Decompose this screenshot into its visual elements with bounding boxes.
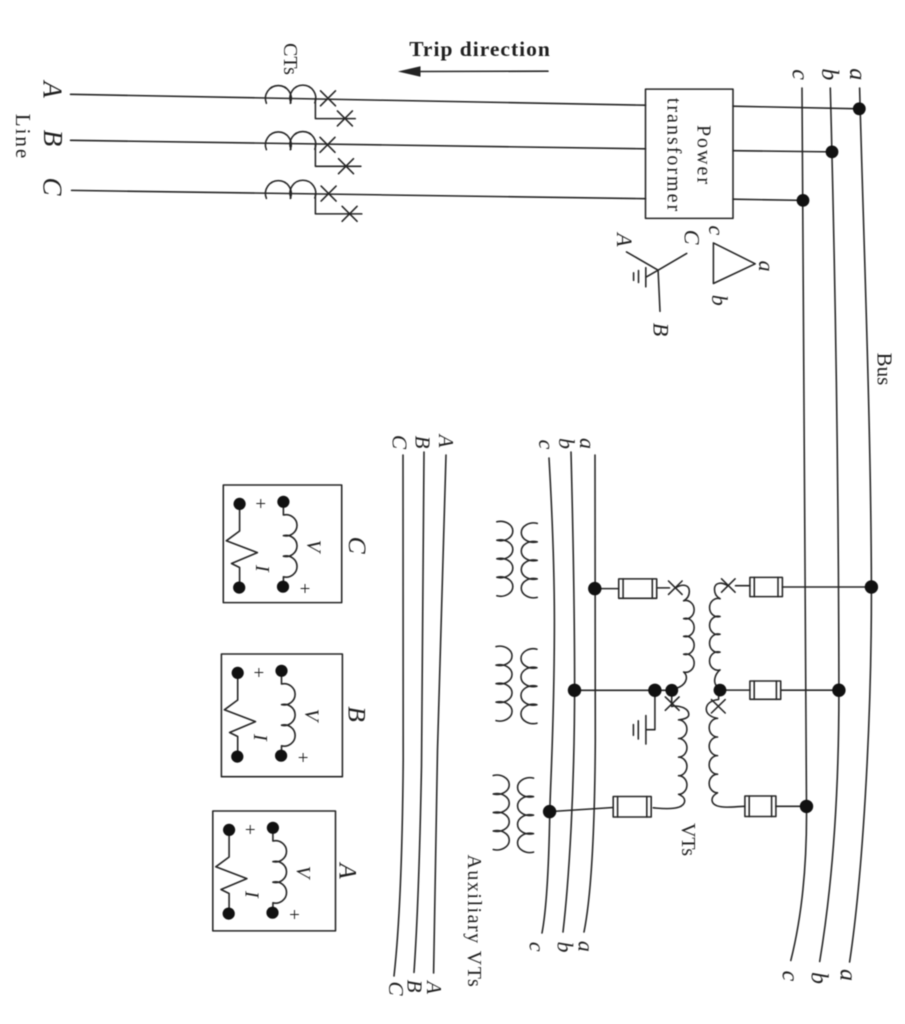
svg-text:b: b bbox=[707, 295, 732, 306]
svg-text:CTs: CTs bbox=[279, 43, 301, 75]
svg-text:B: B bbox=[649, 323, 674, 336]
svg-text:+: + bbox=[300, 579, 311, 600]
svg-text:Trip direction: Trip direction bbox=[409, 37, 551, 61]
svg-text:C: C bbox=[387, 435, 411, 450]
svg-text:+: + bbox=[255, 494, 266, 515]
svg-text:B: B bbox=[343, 706, 372, 722]
svg-text:I: I bbox=[251, 564, 273, 573]
svg-text:+: + bbox=[289, 905, 300, 926]
svg-text:V: V bbox=[292, 866, 314, 881]
svg-text:V: V bbox=[300, 709, 322, 724]
svg-text:+: + bbox=[298, 748, 309, 769]
svg-text:+: + bbox=[245, 820, 256, 841]
svg-text:I: I bbox=[240, 890, 262, 899]
svg-text:b: b bbox=[806, 972, 832, 984]
svg-text:VTs: VTs bbox=[677, 823, 699, 856]
svg-text:B: B bbox=[410, 436, 434, 449]
svg-text:C: C bbox=[343, 537, 372, 555]
svg-text:C: C bbox=[38, 177, 68, 196]
svg-text:A: A bbox=[38, 79, 68, 98]
svg-text:Powertransformer: Powertransformer bbox=[662, 98, 714, 213]
svg-text:I: I bbox=[249, 733, 271, 742]
svg-text:Bus: Bus bbox=[873, 353, 897, 386]
svg-text:B: B bbox=[38, 130, 68, 147]
svg-text:a: a bbox=[844, 68, 870, 80]
svg-text:b: b bbox=[552, 942, 577, 953]
svg-text:c: c bbox=[534, 440, 559, 450]
svg-text:A: A bbox=[434, 433, 458, 448]
svg-text:c: c bbox=[787, 69, 813, 80]
svg-text:V: V bbox=[302, 540, 324, 555]
svg-text:b: b bbox=[816, 68, 842, 80]
svg-text:C: C bbox=[384, 981, 408, 996]
svg-text:a: a bbox=[754, 261, 779, 272]
svg-text:Auxiliary VTs: Auxiliary VTs bbox=[463, 854, 485, 988]
svg-text:c: c bbox=[524, 942, 549, 952]
svg-text:Line: Line bbox=[11, 114, 35, 160]
svg-text:C: C bbox=[679, 230, 704, 245]
svg-text:c: c bbox=[777, 971, 803, 982]
svg-text:+: + bbox=[253, 663, 264, 684]
svg-text:c: c bbox=[704, 226, 729, 236]
svg-text:a: a bbox=[835, 969, 861, 981]
svg-text:A: A bbox=[334, 861, 363, 879]
svg-text:A: A bbox=[612, 231, 637, 247]
